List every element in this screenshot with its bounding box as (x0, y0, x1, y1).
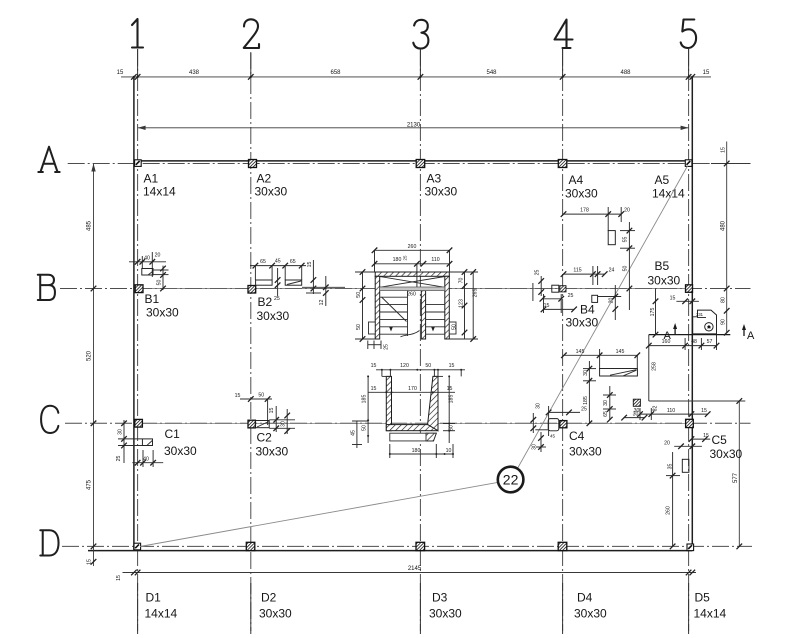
svg-text:480: 480 (721, 220, 727, 231)
svg-text:55: 55 (623, 237, 629, 243)
svg-text:30x30: 30x30 (257, 309, 290, 323)
svg-text:15: 15 (116, 575, 122, 581)
svg-text:331: 331 (696, 312, 704, 317)
svg-text:115: 115 (573, 267, 581, 273)
svg-text:548: 548 (486, 70, 497, 76)
svg-text:C1: C1 (165, 427, 181, 441)
svg-text:48: 48 (691, 339, 697, 345)
svg-text:40: 40 (144, 256, 150, 262)
svg-text:180: 180 (393, 257, 402, 263)
svg-text:B1: B1 (145, 292, 160, 306)
svg-text:260: 260 (407, 291, 416, 297)
svg-text:25: 25 (383, 344, 389, 350)
svg-text:14x14: 14x14 (694, 607, 727, 621)
svg-text:D5: D5 (695, 591, 711, 605)
svg-text:35: 35 (668, 464, 674, 470)
svg-text:A1: A1 (144, 172, 159, 186)
svg-text:50: 50 (258, 392, 264, 398)
svg-text:80: 80 (721, 297, 727, 303)
svg-text:D1: D1 (146, 591, 162, 605)
svg-text:110: 110 (667, 408, 675, 414)
svg-text:A3: A3 (427, 172, 442, 186)
svg-text:30x30: 30x30 (566, 316, 599, 330)
svg-text:50: 50 (425, 363, 431, 369)
svg-text:30: 30 (532, 444, 538, 450)
svg-text:265: 265 (473, 289, 479, 298)
svg-text:90: 90 (721, 319, 727, 325)
svg-text:B5: B5 (655, 259, 670, 273)
svg-text:15: 15 (670, 295, 676, 301)
svg-text:A4: A4 (569, 173, 584, 187)
svg-text:30x30: 30x30 (429, 607, 462, 621)
svg-text:438: 438 (189, 70, 200, 76)
svg-text:15: 15 (371, 386, 377, 392)
svg-text:488: 488 (620, 70, 631, 76)
svg-text:30: 30 (634, 408, 640, 414)
svg-text:260: 260 (408, 244, 417, 250)
svg-text:50: 50 (356, 292, 362, 298)
svg-text:12: 12 (319, 300, 325, 306)
svg-text:15: 15 (117, 70, 124, 76)
svg-text:30x30: 30x30 (648, 274, 681, 288)
svg-text:260: 260 (666, 506, 672, 515)
svg-text:20: 20 (664, 441, 670, 447)
svg-text:30x30: 30x30 (574, 607, 607, 621)
svg-text:A5: A5 (655, 173, 670, 187)
svg-text:82: 82 (653, 406, 659, 412)
svg-text:30x30: 30x30 (256, 445, 289, 459)
svg-text:160: 160 (662, 339, 671, 345)
svg-text:25: 25 (534, 270, 540, 276)
svg-text:70: 70 (458, 278, 464, 284)
svg-text:258: 258 (652, 362, 658, 371)
svg-text:45: 45 (275, 259, 281, 265)
svg-text:15: 15 (721, 147, 727, 153)
svg-text:D4: D4 (577, 591, 593, 605)
svg-text:30: 30 (603, 400, 609, 406)
svg-text:15: 15 (447, 386, 453, 392)
svg-text:185: 185 (361, 395, 367, 404)
svg-text:15: 15 (707, 325, 711, 329)
svg-text:14x14: 14x14 (652, 187, 685, 201)
svg-text:A: A (747, 330, 755, 342)
svg-text:145: 145 (616, 349, 625, 355)
svg-text:658: 658 (330, 70, 341, 76)
svg-text:2130: 2130 (407, 123, 421, 129)
svg-text:50: 50 (623, 266, 629, 272)
svg-text:14x14: 14x14 (143, 185, 176, 199)
svg-text:175: 175 (650, 308, 656, 317)
svg-text:15: 15 (449, 363, 455, 369)
svg-text:50: 50 (361, 425, 367, 431)
svg-text:485: 485 (87, 220, 93, 231)
svg-text:15: 15 (307, 262, 313, 268)
svg-text:30x30: 30x30 (255, 185, 288, 199)
svg-text:180: 180 (412, 448, 421, 454)
svg-text:25: 25 (568, 293, 574, 299)
svg-text:65: 65 (603, 411, 609, 417)
svg-text:C5: C5 (712, 433, 728, 447)
svg-text:45: 45 (351, 430, 357, 436)
svg-text:57: 57 (707, 339, 713, 345)
svg-text:B4: B4 (580, 303, 595, 317)
svg-text:25: 25 (403, 255, 408, 261)
svg-text:178: 178 (580, 208, 589, 214)
svg-text:30x30: 30x30 (425, 185, 458, 199)
svg-text:15: 15 (235, 393, 241, 399)
svg-text:50: 50 (356, 324, 362, 330)
svg-text:65: 65 (260, 259, 266, 265)
svg-text:C2: C2 (257, 431, 273, 445)
svg-text:D2: D2 (261, 591, 277, 605)
svg-text:577: 577 (733, 472, 739, 483)
svg-text:25: 25 (116, 456, 122, 462)
svg-text:30x30: 30x30 (710, 447, 743, 461)
svg-text:30: 30 (536, 403, 542, 409)
svg-text:15: 15 (371, 363, 377, 369)
svg-text:170: 170 (408, 386, 417, 392)
svg-text:10: 10 (446, 448, 452, 454)
svg-text:30x30: 30x30 (565, 187, 598, 201)
svg-text:D3: D3 (432, 591, 448, 605)
svg-text:30: 30 (281, 421, 287, 427)
svg-text:B2: B2 (258, 295, 273, 309)
svg-text:25: 25 (581, 407, 587, 413)
svg-text:30x30: 30x30 (146, 306, 179, 320)
svg-text:145: 145 (576, 349, 585, 355)
svg-text:20: 20 (624, 208, 630, 214)
svg-text:120: 120 (400, 363, 409, 369)
svg-text:2145: 2145 (408, 566, 422, 572)
svg-text:A2: A2 (257, 172, 272, 186)
svg-text:30x30: 30x30 (259, 607, 292, 621)
svg-text:110: 110 (431, 257, 439, 263)
svg-text:24: 24 (609, 267, 615, 273)
svg-text:50: 50 (157, 280, 163, 286)
svg-text:15: 15 (701, 408, 707, 414)
svg-text:20: 20 (155, 253, 161, 259)
svg-text:185: 185 (448, 395, 454, 404)
svg-text:65: 65 (290, 259, 296, 265)
svg-text:15: 15 (269, 408, 275, 414)
svg-text:14x14: 14x14 (145, 607, 178, 621)
svg-text:25: 25 (274, 296, 280, 302)
svg-text:185: 185 (583, 396, 589, 405)
svg-text:22: 22 (503, 472, 519, 488)
svg-text:50: 50 (452, 324, 458, 330)
svg-text:30x30: 30x30 (164, 444, 197, 458)
svg-text:15: 15 (703, 70, 710, 76)
svg-text:475: 475 (87, 479, 93, 490)
svg-text:45: 45 (550, 434, 556, 439)
svg-text:520: 520 (87, 350, 93, 361)
svg-text:30x30: 30x30 (569, 445, 602, 459)
svg-text:C4: C4 (569, 429, 585, 443)
svg-text:30: 30 (118, 429, 124, 435)
